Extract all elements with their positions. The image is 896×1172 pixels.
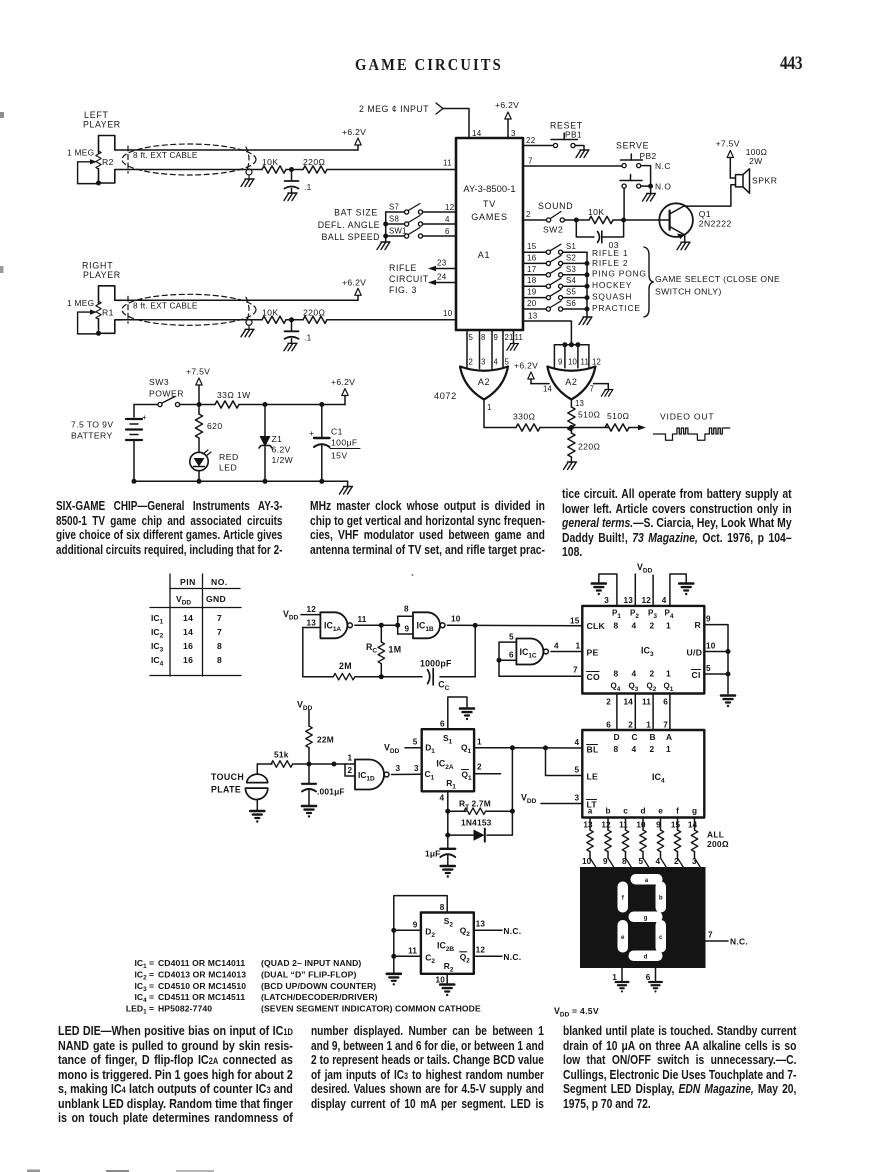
svg-text:a: a bbox=[588, 807, 593, 816]
resistor 220 ohm vertical bbox=[570, 428, 572, 434]
segment f bbox=[618, 882, 629, 913]
svg-text:6: 6 bbox=[445, 227, 450, 236]
svg-text:Q1: Q1 bbox=[699, 209, 711, 219]
wire Q2bar N.C. bbox=[474, 955, 502, 957]
resistor 22M bbox=[306, 726, 312, 748]
svg-text:CLK: CLK bbox=[587, 621, 606, 631]
wire rifle pin 23 arrow bbox=[432, 268, 456, 270]
switch SW2 bbox=[547, 218, 551, 222]
svg-text:620: 620 bbox=[207, 421, 223, 431]
ground display 1 bbox=[616, 982, 629, 993]
svg-text:R1: R1 bbox=[102, 307, 114, 317]
node IC1C pin6 bbox=[497, 658, 502, 663]
svg-text:2: 2 bbox=[606, 698, 611, 707]
node Rc top bbox=[379, 623, 384, 628]
wire battery bottom rail bbox=[134, 480, 348, 482]
resistor 620 bbox=[198, 405, 200, 415]
svg-text:16: 16 bbox=[527, 253, 537, 262]
brace game select bbox=[644, 247, 654, 317]
ground IC3 right bbox=[721, 696, 735, 708]
pushbutton PB2 N.C. contacts bbox=[622, 164, 626, 168]
ground plate bbox=[250, 811, 264, 823]
svg-text:d: d bbox=[644, 953, 648, 960]
svg-text:4: 4 bbox=[632, 669, 637, 679]
svg-text:PLAYER: PLAYER bbox=[83, 270, 121, 280]
svg-text:10K: 10K bbox=[262, 307, 279, 317]
svg-text:10: 10 bbox=[443, 309, 453, 318]
diode 1N4153 bbox=[474, 830, 485, 841]
node Rc bottom bbox=[379, 674, 384, 679]
wire to chip pin 11 bbox=[327, 169, 456, 171]
svg-text:6: 6 bbox=[509, 651, 514, 660]
resistor 200 ohm segment e bbox=[660, 818, 662, 831]
svg-text:9: 9 bbox=[706, 615, 711, 624]
wire pin 13 down to gate A2b bbox=[523, 321, 571, 345]
wire S1 to bus bbox=[563, 251, 587, 253]
ground 220 bbox=[570, 457, 572, 462]
svg-text:16: 16 bbox=[183, 641, 193, 651]
svg-text:+7.5V: +7.5V bbox=[716, 139, 740, 149]
svg-text:3: 3 bbox=[511, 129, 516, 138]
svg-text:22: 22 bbox=[526, 136, 536, 145]
svg-text:1: 1 bbox=[666, 744, 671, 754]
wire VDD to LT bbox=[541, 803, 582, 805]
LED display HP5082-7740 bbox=[580, 867, 706, 968]
svg-text:6: 6 bbox=[663, 698, 668, 707]
svg-text:POWER: POWER bbox=[149, 389, 184, 399]
svg-text:8: 8 bbox=[404, 605, 409, 614]
svg-text:CO: CO bbox=[587, 672, 601, 682]
svg-text:3: 3 bbox=[575, 794, 580, 803]
pot R1 paddle bbox=[78, 286, 122, 336]
svg-text:RIFLE: RIFLE bbox=[389, 263, 417, 273]
svg-text:f: f bbox=[676, 807, 679, 816]
svg-text:1: 1 bbox=[576, 642, 581, 651]
wire IC1C out to PE bbox=[551, 651, 583, 653]
svg-text:14: 14 bbox=[623, 698, 633, 707]
svg-text:b: b bbox=[659, 895, 663, 902]
wire to chip pin 10 bbox=[327, 319, 456, 321]
svg-text:B: B bbox=[650, 732, 656, 742]
svg-text:2: 2 bbox=[650, 744, 655, 754]
svg-text:VDD: VDD bbox=[521, 793, 537, 806]
svg-text:5: 5 bbox=[706, 664, 711, 673]
svg-text:5: 5 bbox=[413, 738, 418, 747]
ground bottom rail bbox=[347, 481, 349, 486]
cable shield drain + ground bbox=[246, 319, 252, 325]
caption row 1 column 1 bbox=[56, 499, 282, 557]
svg-text:PLAYER: PLAYER bbox=[83, 120, 121, 130]
svg-text:6: 6 bbox=[646, 973, 651, 982]
wire vertical 512 bbox=[487, 748, 512, 835]
svg-text:4: 4 bbox=[554, 642, 559, 651]
node 22M bottom bbox=[307, 762, 312, 767]
svg-text:13: 13 bbox=[476, 920, 486, 929]
svg-text:3: 3 bbox=[396, 764, 401, 773]
wire gate pin 7 to ground bbox=[594, 384, 609, 390]
svg-text:7.5 TO 9V: 7.5 TO 9V bbox=[71, 420, 113, 430]
caption row 1 column 3 bbox=[562, 487, 792, 560]
svg-text:14: 14 bbox=[183, 627, 193, 637]
svg-text:6: 6 bbox=[606, 721, 611, 730]
svg-text:BALL SPEED: BALL SPEED bbox=[322, 232, 380, 242]
svg-text:SOUND: SOUND bbox=[538, 201, 573, 211]
svg-text:GND: GND bbox=[206, 594, 226, 604]
capacitor C1 100uF bbox=[321, 405, 323, 437]
svg-text:AY-3-8500-1: AY-3-8500-1 bbox=[463, 184, 515, 194]
resistor 200 ohm segment c bbox=[625, 818, 627, 831]
OR gate A2a (4072) bbox=[460, 367, 508, 400]
svg-text:4: 4 bbox=[632, 744, 637, 754]
resistor Rc 1M bbox=[380, 625, 382, 642]
svg-text:3: 3 bbox=[604, 596, 609, 605]
svg-text:3: 3 bbox=[414, 764, 419, 773]
svg-text:CD4510 OR MC14510: CD4510 OR MC14510 bbox=[158, 981, 246, 991]
node bus dots bbox=[383, 222, 388, 227]
display pin 1 bbox=[621, 968, 623, 982]
svg-text:VIDEO OUT: VIDEO OUT bbox=[660, 412, 714, 422]
resistor RT 2.7M bbox=[448, 810, 466, 812]
svg-text:FIG. 3: FIG. 3 bbox=[389, 285, 417, 295]
svg-text:VDD: VDD bbox=[283, 609, 299, 622]
svg-text:+6.2V: +6.2V bbox=[331, 377, 355, 387]
svg-text:4: 4 bbox=[445, 215, 450, 224]
wire chip pin 11 to ground bbox=[513, 330, 515, 344]
svg-text:2: 2 bbox=[650, 669, 655, 679]
switch S3 game select bbox=[523, 274, 546, 276]
resistor 510 ohm vertical bbox=[568, 407, 575, 431]
IC2A flip-flop box bbox=[422, 729, 474, 791]
caption row 2 column 1 bbox=[58, 1024, 293, 1126]
svg-text:8 ft. EXT CABLE: 8 ft. EXT CABLE bbox=[133, 301, 198, 310]
svg-text:+6.2V: +6.2V bbox=[342, 277, 366, 287]
input arrowhead bbox=[436, 103, 443, 114]
switch S5 game select bbox=[523, 297, 546, 299]
svg-text:10: 10 bbox=[636, 821, 646, 830]
svg-text:HOCKEY: HOCKEY bbox=[592, 280, 632, 290]
svg-text:330Ω: 330Ω bbox=[513, 412, 536, 422]
wire bus bat switches bbox=[385, 212, 387, 242]
ground cap bbox=[284, 343, 297, 351]
capacitor 1uF bbox=[447, 835, 449, 847]
wire IC1B out to CLK bbox=[447, 624, 582, 627]
svg-text:RIFLE 2: RIFLE 2 bbox=[592, 258, 628, 268]
svg-text:2: 2 bbox=[526, 210, 531, 219]
wire IC1A out bbox=[355, 624, 398, 626]
capacitor .1 bbox=[291, 170, 293, 181]
svg-text:IC4: IC4 bbox=[151, 655, 164, 668]
svg-text:N.C.: N.C. bbox=[503, 926, 521, 936]
svg-text:12: 12 bbox=[641, 596, 651, 605]
svg-text:220Ω: 220Ω bbox=[303, 157, 326, 167]
ground IC3 P4 bbox=[679, 584, 693, 596]
page-edge speck left 1 bbox=[0, 112, 4, 118]
svg-text:1: 1 bbox=[666, 669, 671, 679]
node tie dots bbox=[562, 342, 567, 347]
wire pin 12 bbox=[301, 614, 320, 616]
wire chip pin 8 to gate input 3 bbox=[479, 330, 481, 369]
wire rifle pin 24 arrow bbox=[432, 282, 456, 284]
capacitor .001uF bbox=[308, 764, 310, 783]
wire R1 pin 4 down bbox=[447, 791, 449, 835]
svg-text:GAME SELECT (CLOSE ONE: GAME SELECT (CLOSE ONE bbox=[655, 274, 780, 284]
svg-text:b: b bbox=[605, 807, 610, 816]
svg-text:33Ω 1W: 33Ω 1W bbox=[217, 390, 251, 400]
node BL dots bbox=[510, 745, 515, 750]
node IC1D in bbox=[332, 762, 337, 767]
svg-text:GAMES: GAMES bbox=[471, 212, 508, 222]
node N.O. junction bbox=[641, 185, 651, 187]
svg-text:R: R bbox=[695, 620, 702, 630]
resistor 330 ohm bbox=[516, 424, 540, 431]
svg-text:14: 14 bbox=[543, 385, 553, 394]
svg-text:SQUASH: SQUASH bbox=[592, 292, 632, 302]
svg-text:14: 14 bbox=[688, 821, 698, 830]
svg-text:SPKR: SPKR bbox=[752, 176, 777, 186]
cable shield drain + ground bbox=[246, 169, 252, 175]
svg-text:1: 1 bbox=[612, 973, 617, 982]
svg-text:3: 3 bbox=[692, 857, 697, 866]
zener Z1 bbox=[264, 405, 266, 437]
svg-text:1μF: 1μF bbox=[425, 849, 441, 859]
ground S1 bbox=[460, 709, 474, 721]
ground gate pin 7 bbox=[601, 390, 613, 397]
svg-text:7: 7 bbox=[217, 613, 222, 623]
ground Q1 emitter bbox=[677, 242, 690, 250]
wire pin 8 jog to bus bbox=[394, 896, 447, 974]
svg-text:12: 12 bbox=[445, 203, 455, 212]
resistor 200 ohm segment g bbox=[694, 818, 696, 831]
video waveform glyph bbox=[654, 428, 730, 440]
svg-text:IC4 =: IC4 = bbox=[134, 992, 154, 1004]
node IC1B in bbox=[395, 623, 400, 628]
svg-text:1: 1 bbox=[348, 754, 353, 763]
svg-text:A1: A1 bbox=[478, 250, 491, 260]
svg-text:13: 13 bbox=[623, 596, 633, 605]
ground IC2B bus bbox=[387, 974, 401, 986]
node 620 top bbox=[197, 402, 202, 407]
svg-text:11: 11 bbox=[619, 821, 628, 830]
svg-text:10: 10 bbox=[568, 358, 578, 367]
svg-text:1 MEG: 1 MEG bbox=[67, 148, 94, 158]
svg-text:5: 5 bbox=[509, 633, 514, 642]
node 10K left bbox=[574, 218, 579, 223]
switch S8 bbox=[386, 223, 405, 225]
svg-text:11: 11 bbox=[358, 615, 367, 624]
svg-text:CD4013 OR MC14013: CD4013 OR MC14013 bbox=[158, 970, 246, 980]
svg-text:2: 2 bbox=[477, 763, 482, 772]
svg-text:2: 2 bbox=[628, 721, 633, 730]
svg-text:4: 4 bbox=[662, 596, 667, 605]
pushbutton PB2 N.O. contacts bbox=[622, 184, 626, 188]
wire VDD stem bbox=[308, 711, 310, 727]
svg-text:7: 7 bbox=[217, 627, 222, 637]
svg-text:(LATCH/DECODER/DRIVER): (LATCH/DECODER/DRIVER) bbox=[261, 992, 378, 1002]
svg-text:U/D: U/D bbox=[687, 648, 703, 658]
svg-text:4: 4 bbox=[494, 358, 499, 367]
ground cap bbox=[284, 193, 297, 201]
wire D2 bbox=[394, 929, 421, 931]
wire SW2 to 10K bbox=[564, 219, 589, 221]
svg-text:13: 13 bbox=[307, 619, 317, 628]
wire IC1D out bbox=[392, 773, 422, 775]
svg-text:CIRCUIT: CIRCUIT bbox=[389, 274, 429, 284]
scan speck bbox=[412, 574, 414, 576]
svg-text:2 MEG ¢ INPUT: 2 MEG ¢ INPUT bbox=[359, 104, 429, 114]
svg-text:5: 5 bbox=[505, 358, 510, 367]
page header title bbox=[355, 55, 503, 75]
caption row 1 column 2 bbox=[310, 499, 545, 557]
svg-text:22M: 22M bbox=[317, 735, 334, 745]
wire N.O. to sound node bbox=[623, 188, 625, 217]
resistor 200 ohm segment d bbox=[642, 818, 644, 831]
svg-text:15: 15 bbox=[570, 617, 580, 626]
svg-text:10: 10 bbox=[582, 857, 592, 866]
svg-text:16: 16 bbox=[183, 655, 193, 665]
wire 10K to 220 bbox=[286, 169, 303, 171]
capacitor Cc 1000pF bbox=[428, 670, 430, 684]
wire gate A2b output bbox=[570, 400, 572, 408]
svg-text:12: 12 bbox=[592, 358, 601, 367]
svg-text:10: 10 bbox=[706, 642, 716, 651]
ground bat bus bbox=[377, 242, 390, 250]
wire pin 7 to PB2 bbox=[523, 165, 622, 167]
svg-text:PB1: PB1 bbox=[565, 130, 582, 140]
svg-text:LED: LED bbox=[219, 463, 237, 473]
svg-text:A2: A2 bbox=[478, 377, 490, 387]
svg-text:S7: S7 bbox=[389, 203, 399, 212]
node bus bbox=[585, 295, 590, 300]
svg-text:PB2: PB2 bbox=[640, 151, 657, 161]
svg-text:19: 19 bbox=[527, 288, 537, 297]
wires to IC1D inputs bbox=[309, 763, 355, 765]
svg-text:D: D bbox=[614, 732, 620, 742]
wire PB1 to ground bbox=[575, 146, 584, 151]
svg-text:CI: CI bbox=[692, 670, 701, 680]
NAND gate IC1C bbox=[516, 639, 543, 665]
resistor 10K (R2 arm) bbox=[262, 166, 286, 173]
svg-text:1 MEG: 1 MEG bbox=[67, 298, 94, 308]
svg-text:100μF: 100μF bbox=[331, 438, 358, 448]
svg-text:R2: R2 bbox=[102, 157, 114, 167]
segment c bbox=[656, 920, 667, 953]
svg-text:9: 9 bbox=[603, 857, 608, 866]
page-edge speck left 2 bbox=[0, 266, 4, 273]
svg-text:S1: S1 bbox=[566, 242, 576, 251]
node U/D join bbox=[726, 649, 731, 654]
svg-text:9: 9 bbox=[413, 921, 418, 930]
node RT right bbox=[510, 809, 515, 814]
node D2 bbox=[391, 928, 396, 933]
svg-text:HP5082-7740: HP5082-7740 bbox=[158, 1004, 212, 1014]
wires IC3 outputs to IC4 bbox=[616, 694, 618, 731]
svg-text:51k: 51k bbox=[274, 750, 289, 760]
svg-text:4072: 4072 bbox=[434, 391, 457, 401]
svg-text:11: 11 bbox=[642, 698, 651, 707]
svg-text:IC1: IC1 bbox=[151, 613, 164, 626]
svg-text:TV: TV bbox=[483, 199, 496, 209]
svg-text:1/2W: 1/2W bbox=[272, 455, 294, 465]
svg-text:S4: S4 bbox=[566, 276, 577, 285]
wire 330 to node bbox=[540, 427, 571, 429]
node feedback right bbox=[473, 623, 478, 628]
node RT left bbox=[445, 809, 450, 814]
svg-text:+: + bbox=[142, 413, 147, 422]
svg-text:RIGHT: RIGHT bbox=[82, 261, 113, 271]
svg-text:8: 8 bbox=[440, 903, 445, 912]
shielded cable (dashed) bbox=[122, 294, 256, 325]
svg-text:a: a bbox=[645, 877, 649, 884]
svg-text:15: 15 bbox=[671, 821, 681, 830]
wire gate A2a output to video bbox=[484, 400, 516, 428]
wire R2 pin 10 bbox=[446, 974, 448, 985]
resistor 200 ohm segment f bbox=[677, 818, 679, 831]
node junction cap bbox=[289, 317, 294, 322]
svg-text:TOUCH: TOUCH bbox=[211, 772, 244, 782]
wire paddle top to +6.2V bbox=[122, 299, 358, 301]
capacitor .1 bbox=[291, 320, 293, 331]
svg-text:15: 15 bbox=[527, 242, 537, 251]
supply +6.2V arrow bbox=[355, 288, 361, 295]
wire 33 to +6.2 node bbox=[239, 404, 345, 406]
resistor 10K sound bbox=[589, 216, 613, 223]
svg-text:S6: S6 bbox=[566, 299, 576, 308]
wire S2 to bus bbox=[563, 262, 587, 264]
svg-text:PE: PE bbox=[587, 648, 599, 658]
wire input to pin 14 bbox=[443, 109, 469, 139]
resistor 510 ohm horizontal bbox=[605, 424, 629, 431]
svg-text:C: C bbox=[632, 732, 638, 742]
svg-text:1: 1 bbox=[666, 621, 671, 631]
nodes top rail bbox=[263, 402, 268, 407]
svg-text:A: A bbox=[666, 732, 672, 742]
svg-text:RC: RC bbox=[366, 642, 377, 655]
svg-text:14: 14 bbox=[472, 129, 482, 138]
svg-text:.001μF: .001μF bbox=[317, 787, 345, 797]
svg-text:6: 6 bbox=[440, 720, 445, 729]
NAND gate IC1A bbox=[320, 612, 347, 638]
switch SW1 bbox=[386, 235, 405, 237]
wire pin 22 to PB1 bbox=[523, 145, 553, 147]
svg-text:+6.2V: +6.2V bbox=[495, 100, 519, 110]
page-edge bleed mark 1 bbox=[27, 1170, 40, 1172]
svg-text:10: 10 bbox=[436, 976, 446, 985]
svg-text:VDD: VDD bbox=[637, 562, 653, 575]
node C2 bbox=[391, 954, 396, 959]
wire 10K to 220 bbox=[286, 319, 303, 321]
table pin numbers bbox=[169, 574, 171, 676]
svg-text:11: 11 bbox=[581, 358, 590, 367]
svg-text:10K: 10K bbox=[588, 207, 605, 217]
wire S6 to bus bbox=[563, 308, 587, 310]
wire node to 510h bbox=[571, 427, 609, 429]
svg-text:VDD: VDD bbox=[384, 743, 400, 756]
IC4 latch/decoder box bbox=[582, 730, 704, 818]
node bus bbox=[585, 261, 590, 266]
node video junction bbox=[569, 425, 574, 430]
svg-text:2: 2 bbox=[469, 358, 474, 367]
wire chip pin 5 to gate input 2 bbox=[466, 330, 468, 369]
wires IC1B input jog bbox=[398, 615, 413, 617]
svg-text:IC1 =: IC1 = bbox=[134, 958, 154, 970]
svg-text:LE: LE bbox=[587, 772, 599, 782]
svg-text:LED1 =: LED1 = bbox=[126, 1004, 154, 1016]
svg-text:c: c bbox=[623, 807, 628, 816]
display pin 6 bbox=[655, 968, 657, 982]
wire game select bus bbox=[586, 252, 588, 317]
svg-text:2: 2 bbox=[348, 766, 353, 775]
svg-text:24: 24 bbox=[437, 273, 447, 282]
